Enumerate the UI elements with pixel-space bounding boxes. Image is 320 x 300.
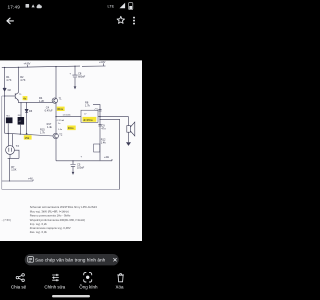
svg-text:- (7.5V): - (7.5V): [2, 218, 11, 222]
node H-D3: [26, 102, 27, 103]
nav delete icon: [117, 274, 124, 282]
node rail-T1: [55, 66, 56, 67]
toolbar back arrow: [7, 18, 13, 24]
svg-text:4.7K: 4.7K: [6, 78, 12, 82]
wire T3 emitter down: [9, 154, 11, 181]
svg-text:1.5K: 1.5K: [11, 168, 17, 172]
description text block: [30, 205, 98, 234]
highlight 15k: [24, 135, 32, 139]
status bar notification icons: [26, 4, 42, 8]
node rail-R1: [4, 67, 5, 68]
phone background: [0, 0, 142, 300]
capacitor C8: [72, 66, 77, 86]
svg-text:30ns: 30ns: [68, 126, 74, 130]
copy text chip: [25, 254, 119, 265]
white schematic photo: [0, 60, 142, 241]
wire T1 emitter down to T2: [55, 103, 57, 134]
wire +4.8V label tick: [27, 65, 29, 68]
capacitor C5: [70, 161, 75, 172]
node stub: [9, 180, 10, 181]
wire H4 row: [5, 133, 54, 136]
capacitor C2: [98, 109, 101, 111]
svg-text:+4.8V: +4.8V: [99, 61, 106, 64]
highlight 30ns lower: [67, 126, 75, 131]
ground C5: [72, 172, 75, 175]
resistor R5 black box: [5, 96, 9, 134]
highlight di=45ns: [83, 117, 97, 122]
wire R8 stub: [93, 105, 100, 117]
transistor T5: [15, 93, 18, 101]
speaker LS1: [127, 126, 131, 133]
svg-text:1.1/100n: 1.1/100n: [63, 115, 72, 117]
wire left frame: [2, 96, 5, 189]
svg-text:1.7k: 1.7k: [85, 103, 91, 107]
svg-text:R61: R61: [6, 116, 9, 118]
home indicator: [52, 295, 90, 297]
wire H1 output row: [56, 116, 129, 118]
nav share icon: [16, 274, 24, 282]
node rail-R2: [18, 67, 19, 68]
wire speaker drop: [128, 117, 130, 126]
transistor T2: [53, 133, 58, 138]
node H1-T1: [55, 116, 56, 117]
wire +4V left stub: [2, 179, 33, 181]
wire T2 emitter down: [55, 139, 57, 161]
wire H base row: [18, 102, 52, 104]
toolbar star button: [117, 16, 124, 23]
wire bottom frame rail: [2, 188, 120, 190]
svg-text:Chia sẻ: Chia sẻ: [11, 285, 27, 290]
nav edit icon: [52, 274, 59, 281]
svg-text:1.2K: 1.2K: [39, 99, 45, 103]
wire T3 feedback loop: [8, 150, 19, 158]
svg-text:di=45ns: di=45ns: [83, 118, 93, 122]
svg-text:680uF: 680uF: [78, 75, 86, 79]
resistor R12 box: [94, 144, 100, 152]
toolbar overflow menu: [133, 17, 135, 25]
node H1-C2: [99, 116, 100, 117]
wire R1 branch: [4, 68, 6, 89]
svg-text:17:49: 17:49: [8, 4, 21, 9]
chip close: [113, 258, 116, 261]
callout box: [81, 110, 98, 122]
diode D3: [25, 109, 28, 112]
svg-text:+4.8V: +4.8V: [24, 62, 31, 66]
wire +4.8V top rail: [2, 66, 80, 68]
highlight 30ns upper: [57, 107, 65, 111]
svg-text:Ồng kính: Ồng kính: [79, 284, 98, 290]
svg-text:4.7K: 4.7K: [20, 78, 26, 82]
svg-text:LTE: LTE: [108, 5, 115, 9]
node H2: [99, 119, 100, 120]
svg-text:100uF: 100uF: [77, 165, 85, 169]
svg-text:+4V: +4V: [28, 176, 33, 180]
wire H3 output: [56, 159, 112, 161]
svg-text:D2: D2: [8, 88, 12, 92]
svg-text:1.4k: 1.4k: [47, 125, 53, 129]
svg-text:R62: R62: [18, 115, 21, 117]
svg-text:D3: D3: [29, 109, 33, 113]
node H3-C5: [72, 160, 73, 161]
ground speaker: [126, 142, 131, 146]
svg-text:0.47uF: 0.47uF: [45, 108, 53, 112]
svg-text:1.7k: 1.7k: [40, 130, 46, 134]
svg-text:C7: C7: [84, 113, 86, 115]
node base junction: [4, 95, 5, 96]
svg-text:Xóa: Xóa: [115, 285, 124, 290]
nav lens icon: [84, 273, 92, 282]
wire +4.8V right supply stub: [82, 63, 106, 66]
wire H2 feedback: [100, 119, 120, 189]
svg-text:+4Ω: +4Ω: [104, 155, 109, 159]
wire D3 branch: [26, 103, 28, 110]
transistor T1: [52, 98, 57, 103]
wire R2 branch / T5 collector: [17, 67, 19, 92]
wire C9/R12 branch: [99, 117, 101, 161]
svg-text:30ns: 30ns: [57, 107, 63, 111]
svg-text:Chỉnh sửa: Chỉnh sửa: [44, 284, 65, 290]
svg-text:4.7: 4.7: [19, 121, 22, 123]
svg-text:Zas. wyj. 6,3k: Zas. wyj. 6,3k: [30, 230, 48, 234]
capacitor C9: [98, 124, 101, 126]
svg-text:47n: 47n: [101, 126, 106, 130]
wire T1 collector up: [55, 67, 57, 99]
status bar battery: [129, 3, 133, 10]
resistor R6 black box: [19, 103, 22, 134]
svg-text:C2: C2: [95, 108, 99, 112]
svg-text:Sao chép văn bản trong hình ản: Sao chép văn bản trong hình ảnh: [35, 257, 106, 263]
diode D2: [3, 88, 6, 91]
svg-text:15k: 15k: [25, 136, 30, 140]
wire T5 emitter down: [17, 100, 19, 103]
status bar signal triangle: [120, 3, 126, 8]
node H4 junctions: [8, 133, 9, 134]
wire base of T5: [5, 95, 16, 97]
transistor pair T3 circle: [6, 146, 15, 155]
highlight 4s: [23, 96, 28, 100]
node rail-C8: [74, 66, 75, 67]
svg-text:-2.17uA: -2.17uA: [57, 119, 65, 122]
chip icon: [28, 257, 34, 263]
node H-box2: [20, 102, 21, 103]
svg-text:1.4k: 1.4k: [101, 141, 107, 145]
